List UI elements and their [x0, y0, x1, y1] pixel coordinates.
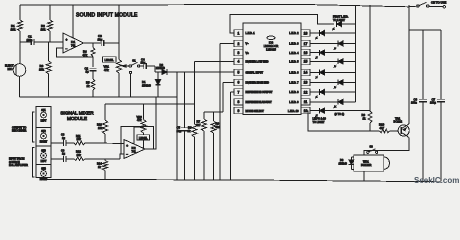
resistor R1	[11, 5, 23, 42]
svg-text:1μ: 1μ	[62, 152, 65, 156]
svg-text:10μ: 10μ	[98, 38, 103, 42]
svg-text:10: 10	[304, 109, 308, 113]
wire mixer bus	[105, 103, 195, 105]
svg-text:LM3914 OR: LM3914 OR	[264, 44, 279, 48]
svg-text:V+: V+	[246, 51, 250, 55]
svg-text:+: +	[126, 144, 128, 148]
pin 11 L.E.D. 9	[289, 99, 316, 105]
capacitor C2	[85, 66, 97, 79]
svg-text:LEVEL: LEVEL	[139, 136, 148, 140]
svg-text:2k7: 2k7	[196, 123, 201, 127]
svg-text:VR2: VR2	[137, 115, 143, 119]
svg-text:MIC: MIC	[8, 67, 13, 71]
svg-text:8: 8	[238, 100, 240, 104]
pin 18 L.E.D. 2	[289, 30, 316, 36]
svg-text:3: 3	[238, 51, 240, 55]
resistor R10	[379, 123, 398, 133]
svg-text:LEVEL: LEVEL	[105, 58, 115, 62]
svg-text:L.E.D. 10: L.E.D. 10	[288, 109, 299, 113]
pin 2 V-	[234, 40, 249, 46]
switch S3 reed	[367, 145, 378, 154]
wire collector	[364, 136, 409, 155]
IC U-IC3 body	[243, 23, 301, 115]
capacitor C8 row A	[51, 133, 74, 146]
svg-text:L.E.D. 2: L.E.D. 2	[289, 31, 299, 35]
svg-text:47k: 47k	[104, 68, 109, 72]
svg-text:2: 2	[238, 42, 240, 46]
svg-text:1N4148: 1N4148	[142, 85, 151, 88]
pin 8 REFERENCE ADJUST	[234, 99, 272, 105]
jack SK1	[41, 109, 47, 123]
resistor R5	[86, 79, 95, 97]
pin 15 L.E.D. 5	[289, 58, 316, 64]
wire module ground rail	[20, 96, 178, 98]
svg-text:10μ: 10μ	[177, 129, 182, 133]
svg-text:L.E.D. 7: L.E.D. 7	[289, 81, 299, 85]
resistor R12 row B	[74, 150, 120, 161]
svg-text:MODULE: MODULE	[67, 116, 87, 121]
wire relay to rail	[363, 171, 365, 181]
svg-text:RIGHT: RIGHT	[40, 141, 48, 144]
svg-text:10k: 10k	[39, 68, 44, 72]
transistor TR1	[394, 116, 410, 136]
LED 4	[316, 50, 356, 59]
microphone MIC1	[5, 42, 26, 97]
svg-text:1μ: 1μ	[62, 136, 65, 140]
svg-text:741: 741	[132, 149, 137, 153]
svg-text:V−: V−	[246, 42, 250, 46]
svg-text:6: 6	[238, 81, 240, 85]
bracket output	[33, 112, 35, 142]
svg-text:SIGNAL INPUT: SIGNAL INPUT	[246, 71, 264, 75]
wire IC2 feedback	[121, 127, 154, 154]
wire pin10 drop	[308, 111, 380, 131]
svg-text:L.E.D. 5: L.E.D. 5	[289, 60, 299, 64]
resistor R11 row A	[74, 134, 124, 145]
svg-text:(9 TO 1): (9 TO 1)	[335, 112, 345, 116]
svg-text:1N4148: 1N4148	[339, 163, 348, 166]
bracket input	[33, 148, 35, 178]
svg-text:BC212: BC212	[394, 120, 403, 124]
LED 7	[316, 80, 355, 89]
relay WD1 buzzer	[354, 155, 390, 171]
potentiometer VR2	[134, 104, 146, 149]
capacitor C7	[430, 30, 445, 181]
resistor R2	[41, 5, 53, 42]
svg-text:7: 7	[238, 90, 240, 94]
LED 3	[316, 41, 355, 50]
svg-text:S3: S3	[370, 145, 374, 149]
resistor R7	[196, 82, 234, 180]
svg-text:4: 4	[238, 60, 240, 64]
LED 6	[316, 70, 356, 79]
svg-text:10k: 10k	[77, 137, 82, 141]
svg-text:IC3: IC3	[269, 41, 274, 45]
svg-text:10k: 10k	[77, 153, 82, 157]
wire top supply rail	[20, 4, 417, 6]
svg-text:10k: 10k	[41, 28, 46, 32]
op-amp IC1	[63, 5, 84, 53]
svg-text:12: 12	[304, 90, 308, 94]
pin 14 L.E.D. 6	[289, 69, 316, 75]
svg-text:SK2: SK2	[41, 130, 46, 133]
wire LED anode rail	[354, 5, 356, 102]
pin 4 DIVIDER LOW END	[234, 58, 269, 64]
svg-text:L.E.D. 1: L.E.D. 1	[246, 31, 256, 35]
boxed label LEVEL2	[137, 135, 150, 140]
pin 13 L.E.D. 7	[289, 79, 316, 85]
svg-text:47k: 47k	[137, 118, 142, 122]
capacitor C6	[411, 30, 427, 181]
svg-text:E.G. AMPLIFIER: E.G. AMPLIFIER	[9, 164, 28, 167]
wire feedback loop IC1	[57, 48, 94, 57]
svg-text:1k: 1k	[87, 84, 91, 88]
svg-text:S1: S1	[132, 58, 136, 62]
svg-text:TO LIGHT: TO LIGHT	[313, 120, 325, 124]
svg-text:IC1: IC1	[71, 40, 76, 44]
wire IC2 output	[145, 97, 156, 149]
capacitor C9 row B	[51, 148, 74, 161]
svg-text:SK4: SK4	[41, 168, 46, 171]
capacitor C4	[140, 57, 155, 72]
svg-text:LEFT: LEFT	[41, 160, 47, 163]
svg-text:L.E.D. 6: L.E.D. 6	[289, 71, 299, 75]
boxed label LEVEL	[103, 57, 117, 63]
resistor R8	[211, 112, 221, 180]
resistor R6 divider	[188, 61, 198, 180]
svg-text:13: 13	[304, 81, 308, 85]
pin 1 L.E.D. 1	[234, 30, 255, 36]
svg-text:16: 16	[304, 51, 308, 55]
jack panel box	[36, 107, 51, 178]
LED 2	[316, 30, 356, 39]
svg-text:10k: 10k	[98, 126, 103, 130]
wire V+ branch	[409, 5, 441, 30]
svg-text:DIVIDER HIGH END: DIVIDER HIGH END	[246, 81, 270, 85]
svg-text:741: 741	[71, 44, 76, 48]
svg-text:47k: 47k	[83, 53, 88, 57]
LED 1	[333, 21, 356, 30]
pin 3 V+	[234, 49, 249, 55]
svg-text:1k: 1k	[363, 116, 367, 120]
pin 6 DIVIDER HIGH END	[234, 79, 269, 85]
pin 9 MODE SELECT	[234, 107, 264, 113]
diode D3	[339, 157, 355, 170]
resistor R3	[39, 42, 51, 97]
resistor R14 mixer gnd	[97, 159, 108, 180]
pin 16 L.E.D. 4	[289, 49, 316, 55]
svg-text:BUZZER: BUZZER	[361, 163, 372, 167]
svg-text:REFERENCE ADJUST: REFERENCE ADJUST	[246, 100, 273, 104]
LED 5	[316, 59, 355, 68]
svg-text:18: 18	[304, 31, 308, 35]
svg-text:4k7: 4k7	[380, 126, 385, 130]
wire minus in jog	[120, 154, 124, 159]
svg-text:ON TO USE: ON TO USE	[431, 0, 446, 4]
capacitor C5	[177, 72, 188, 180]
resistor R13 mixer fb	[97, 104, 108, 143]
pin 17 L.E.D. 3	[289, 40, 316, 46]
pin 5 SIGNAL INPUT	[234, 69, 264, 75]
wire emitter	[407, 30, 409, 125]
wire pin2 ground	[220, 43, 234, 45]
capacitor C1	[20, 35, 50, 45]
jack SK3	[41, 150, 47, 164]
IC3 label	[264, 36, 279, 51]
svg-text:100n: 100n	[411, 101, 417, 105]
svg-text:9: 9	[238, 109, 240, 113]
LED 10	[316, 108, 370, 117]
svg-text:RIGHT: RIGHT	[40, 178, 48, 181]
pin 7 REFERENCE OUTPUT	[234, 89, 273, 95]
svg-text:5: 5	[238, 71, 240, 75]
svg-text:−: −	[126, 152, 128, 156]
switch S2	[417, 2, 446, 8]
diode D2	[155, 63, 170, 75]
svg-text:SK3: SK3	[41, 150, 46, 153]
LED 9	[316, 99, 355, 108]
svg-text:SeekIC.com: SeekIC.com	[414, 176, 459, 185]
jack SK4	[40, 168, 48, 182]
svg-text:17: 17	[304, 42, 308, 46]
capacitor C3	[98, 34, 120, 46]
svg-text:100μ: 100μ	[430, 101, 436, 105]
LED 8	[316, 89, 356, 98]
svg-text:REFERENCE OUTPUT: REFERENCE OUTPUT	[246, 90, 273, 94]
wire op-amp output	[84, 42, 101, 44]
svg-text:10μ: 10μ	[141, 61, 146, 65]
svg-text:DIVIDER LOW END: DIVIDER LOW END	[246, 60, 269, 64]
resistor R4	[83, 43, 96, 67]
svg-text:L.E.D. 4: L.E.D. 4	[289, 51, 299, 55]
svg-text:15: 15	[304, 60, 308, 64]
svg-text:1μ: 1μ	[86, 70, 90, 74]
potentiometer VR1	[104, 5, 130, 97]
jack SK2	[40, 130, 48, 144]
wire pin4 stub	[195, 60, 235, 62]
svg-text:100n: 100n	[27, 38, 33, 42]
svg-text:+: +	[66, 38, 68, 42]
op-amp IC2	[124, 140, 145, 159]
svg-text:SOUND INPUT MODULE: SOUND INPUT MODULE	[76, 13, 138, 19]
wire signal line to IC	[170, 71, 234, 73]
svg-text:MODE SELECT: MODE SELECT	[246, 109, 265, 113]
resistor R9	[362, 5, 373, 131]
svg-text:SIGNAL MIXER: SIGNAL MIXER	[60, 111, 94, 116]
svg-text:1k: 1k	[188, 129, 192, 133]
svg-text:RECORDER: RECORDER	[12, 130, 27, 133]
svg-text:D1: D1	[142, 80, 146, 84]
diode D1	[142, 72, 161, 97]
wire pin1 route	[230, 14, 334, 33]
wire node to op-amp	[50, 41, 63, 43]
svg-text:−: −	[66, 47, 68, 51]
svg-text:C1: C1	[28, 35, 32, 39]
svg-text:L.E.D. 3: L.E.D. 3	[289, 42, 299, 46]
svg-text:LM3915: LM3915	[266, 47, 276, 51]
svg-text:11: 11	[304, 100, 308, 104]
svg-text:L.E.D. 8: L.E.D. 8	[289, 90, 299, 94]
svg-text:D3: D3	[340, 158, 344, 162]
svg-text:SK1: SK1	[41, 109, 46, 112]
svg-text:1N4148: 1N4148	[156, 67, 165, 70]
svg-text:10k: 10k	[11, 28, 16, 32]
wire ground drop	[176, 72, 178, 180]
svg-text:IC2: IC2	[132, 146, 137, 150]
wire pin7 drop	[231, 91, 235, 93]
svg-text:LEFT: LEFT	[41, 120, 47, 123]
pin 12 L.E.D. 8	[289, 89, 316, 95]
pin 10 L.E.D. 10	[288, 107, 316, 113]
svg-text:TO LIGHT: TO LIGHT	[333, 18, 345, 22]
svg-text:14: 14	[304, 71, 308, 75]
svg-text:1: 1	[238, 31, 240, 35]
switch S1	[129, 58, 140, 97]
wire bottom rail 0V	[42, 179, 441, 181]
svg-text:L.E.D. 9: L.E.D. 9	[289, 100, 299, 104]
